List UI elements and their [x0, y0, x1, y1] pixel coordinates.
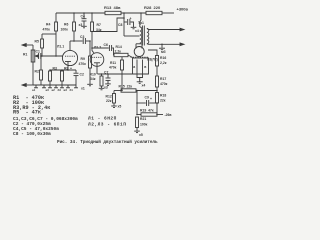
svg-text:в: в	[144, 65, 146, 69]
wire phase line	[98, 73, 149, 75]
svg-text:R5: R5	[35, 40, 39, 44]
svg-text:R2: R2	[35, 70, 39, 74]
svg-text:х5: х5	[118, 105, 122, 109]
svg-text:100к: 100к	[61, 28, 69, 32]
transformer Tp1 primary winding	[140, 27, 142, 43]
svg-text:б1: б1	[70, 88, 74, 92]
svg-text:б3: б3	[58, 88, 62, 92]
svg-text:R18: R18	[160, 94, 166, 98]
resistor R2	[40, 56, 42, 70]
tube L1.2 cathode	[94, 62, 100, 64]
svg-text:х3: х3	[104, 86, 108, 90]
resistor R9	[89, 41, 91, 56]
svg-text:х4: х4	[142, 84, 146, 88]
svg-text:х5: х5	[139, 133, 143, 137]
svg-text:R11: R11	[110, 61, 116, 65]
labels	[104, 5, 189, 12]
svg-text:R15 22к: R15 22к	[119, 85, 133, 89]
svg-text:+: +	[130, 17, 132, 21]
svg-text:мб: мб	[161, 50, 166, 54]
wire rail drop to centre tap	[123, 13, 125, 36]
svg-text:R12: R12	[106, 95, 112, 99]
resistor R13	[105, 11, 121, 14]
svg-text:R14: R14	[116, 45, 122, 49]
svg-text:C4: C4	[81, 15, 85, 19]
tube L1.1 envelope	[62, 50, 77, 65]
resistor R19	[137, 114, 141, 116]
svg-text:R10: R10	[90, 73, 96, 77]
svg-text:C7: C7	[104, 71, 108, 75]
svg-text:Л1.1: Л1.1	[57, 45, 64, 49]
ground symbols on bus	[35, 85, 37, 88]
svg-text:х1: х1	[81, 87, 85, 91]
parts list text	[13, 95, 126, 137]
svg-text:C1: C1	[36, 50, 40, 54]
svg-text:а2: а2	[52, 88, 56, 92]
svg-text:+: +	[70, 67, 72, 71]
capacitor C6	[92, 47, 109, 49]
capacitor C4	[83, 13, 85, 19]
resistor R5	[42, 33, 56, 35]
resistor R14	[112, 48, 114, 55]
svg-text:R17: R17	[160, 77, 166, 81]
wire grid line L1.1	[41, 55, 62, 57]
wire primary centre tap	[124, 35, 140, 37]
svg-text:C6: C6	[104, 43, 108, 47]
svg-text:470к: 470к	[160, 82, 168, 86]
wire ground bus	[33, 84, 76, 86]
svg-text:R21: R21	[140, 117, 146, 121]
svg-text:470к: 470к	[79, 62, 87, 66]
tube L3 L2 dome	[134, 47, 144, 57]
svg-text:Тр1: Тр1	[138, 21, 144, 25]
wire rail mid	[121, 12, 146, 14]
resistor R4	[55, 13, 57, 22]
svg-text:34к: 34к	[96, 28, 102, 32]
potentiometer R1	[31, 50, 35, 62]
svg-text:+: +	[150, 97, 152, 101]
svg-text:R4: R4	[46, 23, 50, 27]
capacitor C2	[75, 70, 77, 73]
tube grid row	[131, 56, 149, 58]
svg-text:-26в: -26в	[165, 113, 172, 117]
resistor R17	[156, 76, 159, 87]
wire cathodes join to ground	[137, 74, 143, 78]
svg-text:R13 48в: R13 48в	[104, 5, 121, 10]
wire top power rail	[56, 12, 105, 14]
svg-text:а: а	[133, 65, 135, 69]
tube L1.2 envelope	[90, 53, 104, 67]
wire secondary bottom to speaker	[147, 43, 181, 46]
svg-text:22к: 22к	[106, 99, 112, 103]
svg-text:470к: 470к	[43, 28, 51, 32]
wire anode L1.1	[69, 41, 71, 51]
svg-text:R1: R1	[23, 53, 27, 57]
wire rail drop to primary top	[140, 13, 142, 20]
svg-text:а1: а1	[32, 88, 36, 92]
resistor R28	[146, 11, 162, 14]
capacitor C9	[137, 102, 146, 104]
capacitor C1	[37, 55, 40, 57]
svg-text:R9: R9	[81, 57, 85, 61]
input terminal arrow top	[22, 44, 33, 46]
resistor R15	[114, 90, 121, 92]
capacitor C8	[124, 21, 127, 23]
capacitor C7	[107, 74, 109, 78]
ground secondary tap	[161, 44, 163, 48]
svg-text:C2: C2	[80, 73, 84, 77]
transformer core	[141, 26, 143, 46]
svg-text:Л2,Л3 - 6П1П: Л2,Л3 - 6П1П	[88, 122, 126, 128]
svg-text:R16: R16	[160, 56, 166, 60]
capacitor C3	[74, 40, 83, 42]
transformer secondary winding	[147, 29, 149, 44]
svg-text:C8 - 100,0х30в: C8 - 100,0х30в	[13, 131, 51, 137]
svg-text:а3: а3	[46, 88, 50, 92]
svg-text:C8: C8	[118, 23, 122, 27]
svg-text:2,2к: 2,2к	[160, 61, 167, 65]
resistor R16	[156, 56, 159, 67]
svg-text:R5 - 47к: R5 - 47к	[13, 110, 41, 116]
wire cathode L1.2	[96, 63, 98, 74]
resistor R6	[73, 13, 75, 22]
svg-text:х3: х3	[79, 23, 83, 27]
svg-text:R6: R6	[64, 23, 68, 27]
wire rail end	[162, 12, 174, 14]
wire primary to anode L2	[141, 44, 143, 49]
svg-text:34к: 34к	[90, 77, 96, 81]
wire cathode L1.1	[67, 62, 69, 71]
resistor chain column	[148, 50, 157, 56]
wire secondary top to speaker	[147, 29, 181, 30]
svg-text:C3: C3	[80, 35, 84, 39]
speaker arrows	[180, 28, 184, 31]
resistor R3	[49, 70, 51, 71]
resistor R12	[113, 91, 115, 94]
resistor R8	[61, 70, 63, 71]
wire input column	[32, 45, 34, 85]
tube body box	[133, 58, 149, 74]
svg-text:Л1.2: Л1.2	[94, 46, 101, 50]
wire subrail feed	[92, 18, 124, 32]
tube L1.1 cathode	[65, 61, 71, 63]
svg-text:2,2к: 2,2к	[115, 50, 122, 54]
svg-text:Рис. 34. Триодный двухтактный: Рис. 34. Триодный двухтактный усилитель	[57, 140, 158, 145]
resistor R18	[156, 93, 159, 104]
svg-text:х4: х4	[135, 29, 139, 33]
wire bias column	[136, 91, 138, 115]
svg-text:Л1 - 6Н2П: Л1 - 6Н2П	[88, 116, 117, 122]
svg-text:470к: 470к	[109, 66, 117, 70]
tube cathodes	[136, 60, 138, 75]
svg-text:R8: R8	[64, 67, 68, 71]
svg-text:R3: R3	[53, 67, 57, 71]
svg-text:C9: C9	[145, 96, 149, 100]
resistor R7	[91, 13, 93, 22]
svg-text:22к: 22к	[160, 99, 166, 103]
svg-text:Л3(Л2): Л3(Л2)	[147, 58, 158, 62]
svg-text:+300в: +300в	[177, 7, 189, 12]
resistor R21	[136, 117, 139, 128]
svg-text:в3: в3	[64, 88, 68, 92]
svg-text:R28 220: R28 220	[144, 5, 161, 10]
svg-text:R19 47к: R19 47к	[140, 109, 154, 113]
input terminal arrow bottom	[22, 84, 33, 86]
svg-text:R7: R7	[97, 23, 101, 27]
resistor R10	[101, 74, 103, 76]
svg-text:100к: 100к	[140, 123, 148, 127]
wire primary to anode L3	[136, 43, 142, 45]
junction dots	[40, 12, 163, 115]
resistor R11	[121, 57, 123, 60]
